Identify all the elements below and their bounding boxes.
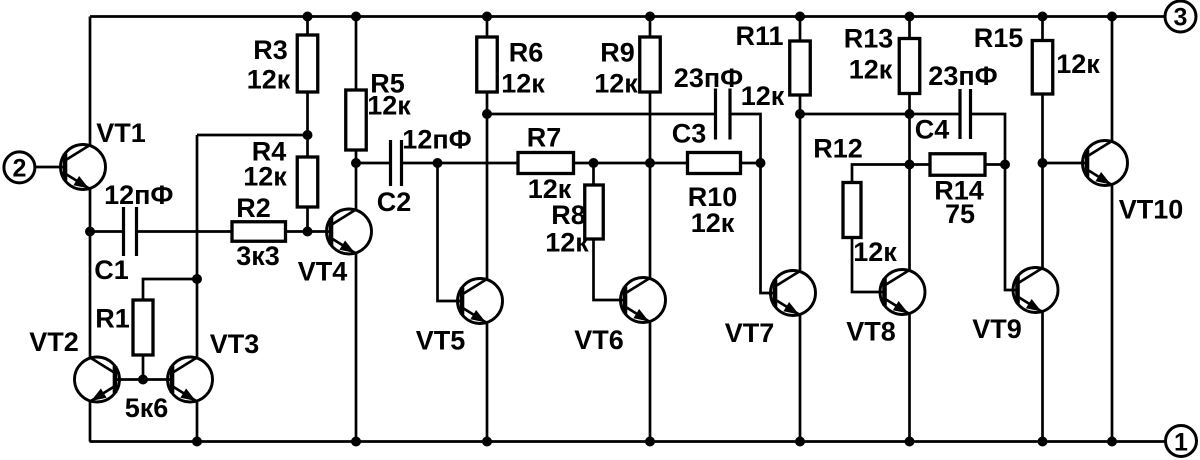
value R9 12к [594,69,638,99]
svg-text:R15: R15 [974,23,1024,53]
junction: bottom rail x=1112 [1107,437,1117,447]
resistor R4 [297,157,318,207]
junction: C4 / R14 right / VT9 base branch [1000,160,1010,170]
svg-text:12к: 12к [849,55,893,85]
junction: bottom rail x=197 [192,437,202,447]
value R4 12к [243,162,287,192]
terminal node 1 (common) [1166,426,1197,457]
transistor VT5 [458,279,503,324]
wire: C2 left lead [356,162,391,165]
svg-text:12к: 12к [367,91,411,121]
svg-text:12к: 12к [691,208,735,238]
wire: C4 right jog down to R14 right [971,114,1006,165]
junction: R1 top / VT3 collector line [192,274,202,284]
junction: R4 / R2 / VT4 base [303,227,313,237]
wire: VT3 emitter to bottom rail [196,402,199,442]
svg-text:12к: 12к [545,228,589,258]
capacitor C4 [960,89,971,139]
svg-text:C1: C1 [94,255,129,285]
value C4 23пФ [928,61,997,91]
svg-text:12к: 12к [501,69,545,99]
label VT9 [972,314,1022,344]
transistor VT8 [880,270,925,315]
terminal node 2 (input) [4,152,35,183]
wire: bottom rail to node 1 [90,440,1166,443]
label VT4 [298,257,348,287]
terminal node 3 (V+) [1165,1,1196,32]
svg-text:12к: 12к [853,237,897,267]
junction: bottom rail x=356 [351,437,361,447]
svg-text:5к6: 5к6 [125,393,169,423]
svg-text:12к: 12к [247,65,291,95]
junction: R3 / R4 / left wire [303,130,313,140]
resistor R10 [688,153,741,174]
junction: C2 / VT5 base branch [433,158,443,168]
label VT1 [96,118,146,148]
svg-text:R11: R11 [735,21,783,51]
transistor VT3 [168,357,213,402]
svg-text:VT9: VT9 [972,314,1022,344]
junction: bottom rail x=909.5 [905,437,915,447]
wire: R8 branch to VT6 base [594,163,626,300]
svg-text:12пФ: 12пФ [104,180,173,210]
wire: R6 column / VT5 collector [486,17,489,279]
junction: R11 / feedback wire [795,109,805,119]
junction: R10 right / C3 / VT7 base branch [756,158,766,168]
label C3 [672,119,707,149]
value R8 12к [545,228,589,258]
label R1 [95,304,130,334]
resistor R5 [346,90,367,150]
svg-text:R13: R13 [844,24,894,54]
value R15 12к [1056,49,1100,79]
label VT3 [210,329,260,359]
junction: R5 / C2 / VT4 collector [351,158,361,168]
label VT7 [725,318,775,348]
svg-text:VT10: VT10 [1119,195,1184,225]
svg-text:12к: 12к [243,162,287,192]
wire: input node 2 to VT1 base [35,166,66,169]
label R3 [253,35,288,65]
label VT8 [846,317,896,347]
svg-text:VT5: VT5 [416,326,466,356]
label R10 [688,182,738,212]
junction: bottom rail x=650 [645,437,655,447]
wire: feedback row to C4 left [800,113,960,116]
svg-text:12к: 12к [1056,49,1100,79]
junction: R13 / R12 / R14 left / VT8 collector [905,160,915,170]
wire: VT10 base wire [1043,162,1088,165]
resistor R8 [585,185,604,239]
transistor VT4 [327,209,372,254]
svg-text:VT3: VT3 [210,329,260,359]
label R2 [236,193,271,223]
svg-text:3к3: 3к3 [236,241,280,271]
svg-text:C3: C3 [672,119,707,149]
svg-text:R1: R1 [95,304,130,334]
transistor VT7 [771,271,816,316]
svg-text:75: 75 [945,199,975,229]
resistor R1 [133,300,153,355]
junction: top rail x=650 [645,12,655,22]
value R1 5к6 [125,393,169,423]
wire: R4 column [306,135,309,232]
wire: R3-R4 junction to VT3 column [197,134,308,137]
label R14 [934,176,984,206]
resistor R13 [899,39,920,94]
svg-text:12к: 12к [741,81,785,111]
junction: top rail x=307.5 [303,12,313,22]
value R6 12к [501,69,545,99]
value R3 12к [247,65,291,95]
label R7 [527,123,562,153]
junction: R15 / VT10 base / VT9 collector [1038,158,1048,168]
wire: VT1 emitter down to VT2 collector [89,189,92,358]
transistor VT10 [1083,141,1128,186]
svg-text:3: 3 [1174,4,1188,32]
label R8 [551,200,586,230]
svg-text:VT7: VT7 [725,318,775,348]
svg-text:2: 2 [12,155,26,183]
junction: bottom rail x=487 [482,437,492,447]
wire: VT5 emitter to bottom rail [486,324,489,442]
wire: VT8 emitter to bottom rail [908,315,911,442]
svg-text:R12: R12 [813,134,863,164]
label R6 [509,38,544,68]
label VT6 [574,325,624,355]
svg-text:R3: R3 [253,35,288,65]
junction: R7 right / R8 top [589,158,599,168]
svg-text:12к: 12к [594,69,638,99]
resistor R12 [843,183,861,238]
junction: R13 column / feedback wire [905,109,915,119]
resistor R15 [1032,41,1053,95]
resistor R3 [297,35,318,92]
label R12 [813,134,863,164]
svg-text:23пФ: 23пФ [674,63,743,93]
junction: bottom rail x=800 [795,437,805,447]
capacitor C2 [391,140,402,186]
resistor R9 [640,37,661,92]
label R5 [370,69,405,99]
label C1 [94,255,129,285]
resistor R7 [518,153,574,174]
capacitor C3 [716,89,731,140]
wire: VT10 emitter to bottom rail [1111,186,1114,442]
wire: top supply rail to node 3 [90,15,1165,18]
junction: R6-VT5 / C3 wire [482,109,492,119]
wire: R1 bottom lead [142,355,145,380]
svg-text:VT4: VT4 [298,257,348,287]
transistor VT2 [75,357,120,402]
resistor R11 [790,41,811,95]
label C2 [377,187,412,217]
wire: R1 top lead to VT3 collector line [143,279,197,300]
value R11 12к [741,81,785,111]
svg-text:1: 1 [1174,429,1188,457]
wire: R11 column / VT7 collector [799,17,802,271]
junction: top rail x=487 [482,12,492,22]
wire: R13 column / VT8 collector [908,17,911,270]
wire: R14 leads [910,163,1006,166]
svg-text:R7: R7 [527,123,562,153]
label VT5 [416,326,466,356]
label R15 [974,23,1024,53]
label R11 [735,21,783,51]
svg-text:12пФ: 12пФ [402,125,471,155]
wire: R15 column / VT9 collector [1041,17,1044,268]
label VT10 [1119,195,1184,225]
svg-text:VT8: VT8 [846,317,896,347]
svg-text:R9: R9 [600,38,635,68]
wire: R9 column / VT6 collector [649,17,652,278]
value R7 12к [528,174,572,204]
wire: VT10 collector stem [1111,17,1114,142]
svg-text:R6: R6 [509,38,544,68]
transistor VT1 [61,145,106,190]
resistor R14 [930,154,985,176]
junction: VT1 emitter / C1 [85,227,95,237]
value R13 12к [849,55,893,85]
wire: VT4 emitter to bottom rail [355,254,358,442]
wire: VT2 emitter to bottom rail [89,402,92,442]
wire: C2 right through R7 to R9 node [402,162,651,165]
value C1 12пФ [104,180,173,210]
wire: R12 branch to VT8 base [852,165,910,293]
wire: VT7 emitter to bottom rail [799,316,802,442]
wire: VT7 base branch [761,163,776,293]
junction: top rail x=356 [351,12,361,22]
resistor R2 [232,222,286,242]
value R12 12к [853,237,897,267]
wire: C3 left wire [487,113,716,116]
label C4 [915,115,950,145]
wire: R10 leads [650,162,761,165]
svg-text:R8: R8 [551,200,586,230]
junction: top rail x=800 [795,12,805,22]
label VT2 [29,327,79,357]
wire: R3 column from top rail [306,17,309,136]
svg-text:VT6: VT6 [574,325,624,355]
wire: R5 column / VT4 collector [355,17,358,210]
transistor VT6 [621,278,666,323]
svg-text:VT1: VT1 [96,118,146,148]
junction: R9 / R10 / VT6 collector [645,158,655,168]
value R2 3к3 [236,241,280,271]
wire: VT6 emitter to bottom rail [649,323,652,442]
junction: R1 bottom on base wire [138,375,148,385]
svg-text:VT2: VT2 [29,327,79,357]
capacitor C1 [124,207,137,256]
svg-text:23пФ: 23пФ [928,61,997,91]
wire: C1 left lead [90,230,124,233]
svg-text:C4: C4 [915,115,950,145]
transistor VT9 [1013,268,1058,313]
value C2 12пФ [402,125,471,155]
svg-text:R2: R2 [236,193,271,223]
label R13 [844,24,894,54]
label R4 [252,137,287,167]
wire: VT5 base branch [438,163,463,301]
svg-text:C2: C2 [377,187,412,217]
resistor R6 [477,37,498,92]
value C3 23пФ [674,63,743,93]
wire: VT9 emitter to bottom rail [1041,313,1044,442]
junction: top rail x=1042.5 [1038,12,1048,22]
junction: bottom rail x=1042.5 [1038,437,1048,447]
junction: top rail x=909.5 [905,12,915,22]
wire: C1 right to R2 to VT4 base [137,230,332,233]
junction: top rail x=1112 [1107,12,1117,22]
value R5 12к [367,91,411,121]
wire: C3 right jog down to R10 right [730,114,761,163]
wire: VT9 base branch [1005,165,1017,291]
value R14 75 [945,199,975,229]
label R9 [600,38,635,68]
wire: VT3 collector column [196,135,199,358]
wire: VT2 base to VT3 base [115,378,172,381]
wire: VT1 collector stem [89,17,92,146]
value R10 12к [691,208,735,238]
